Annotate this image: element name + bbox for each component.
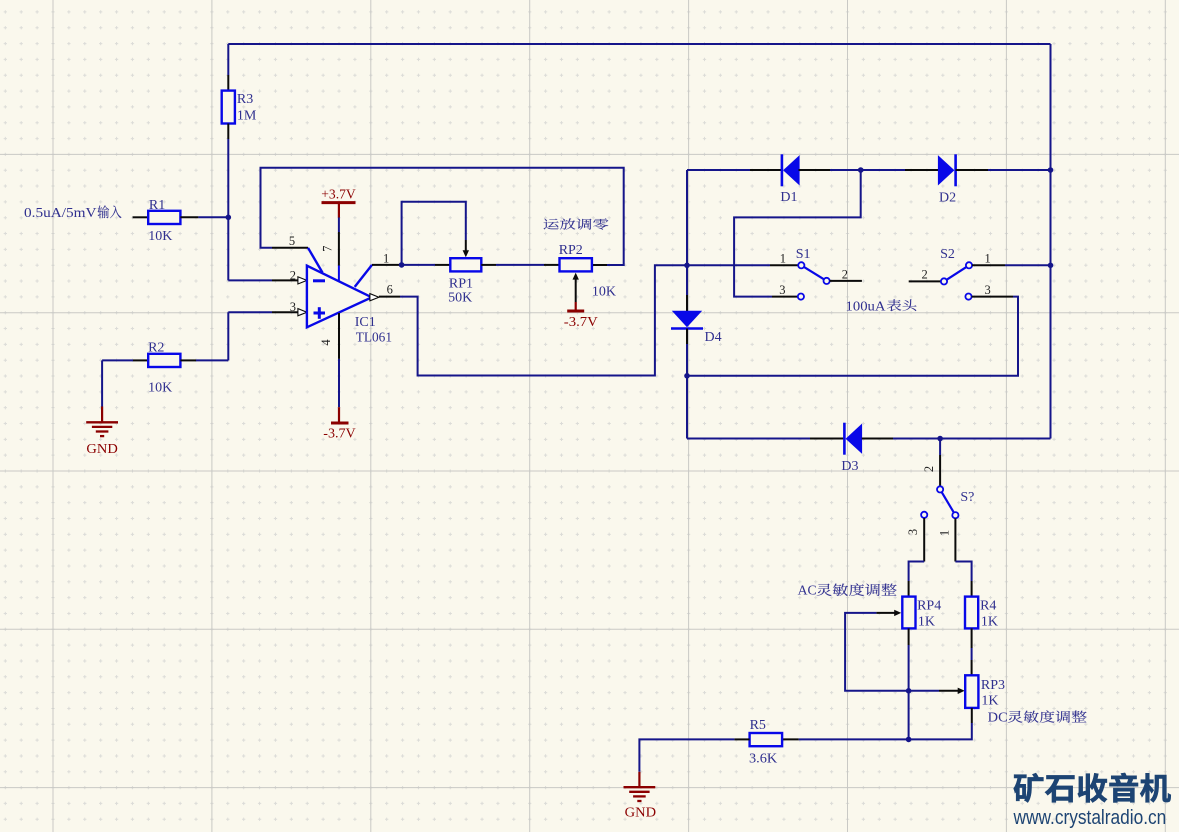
svg-text:R5: R5 <box>750 718 766 733</box>
junction: S2 pin3 rail / D4 bus <box>684 373 690 379</box>
svg-text:www.crystalradio.cn: www.crystalradio.cn <box>1013 807 1167 829</box>
wire: D4 bus vertical <box>686 170 688 295</box>
svg-text:2: 2 <box>921 267 927 281</box>
wire: R3 bottom to inverting-input node <box>227 124 229 140</box>
svg-text:1: 1 <box>780 252 786 266</box>
junction: R1 / R3 node <box>226 215 232 221</box>
switch S1 pin 1 contact <box>798 262 804 268</box>
RP2 wiper arrow from -3.7V <box>575 278 577 302</box>
svg-text:4: 4 <box>319 339 333 346</box>
wire: R1 to node <box>180 216 198 218</box>
op-amp IC1 TL061 triangle <box>307 266 372 328</box>
power ground GND (bottom) <box>638 772 640 787</box>
switch S1 pin 3 contact <box>798 294 804 300</box>
svg-text:D1: D1 <box>780 190 797 205</box>
wire: S? pin 3 down to RP4 <box>923 518 925 562</box>
svg-text:10K: 10K <box>148 229 172 244</box>
resistor R3 <box>222 91 235 124</box>
potentiometer RP1 <box>450 258 481 271</box>
svg-text:S?: S? <box>960 490 974 505</box>
switch S? pin 1 contact <box>952 512 958 518</box>
wire: S2 pin 2 stub (to meter) <box>909 280 941 282</box>
wire: R2 right to op-amp pin 3 <box>180 359 196 361</box>
svg-text:DC: DC <box>988 709 1008 724</box>
svg-text:2: 2 <box>290 268 296 282</box>
svg-text:RP2: RP2 <box>559 243 583 258</box>
switch S2 lever <box>944 265 969 281</box>
wire: RP1 to RP2 <box>481 264 496 266</box>
svg-text:S1: S1 <box>796 247 811 262</box>
svg-text:D2: D2 <box>939 191 956 206</box>
svg-text:S2: S2 <box>940 247 955 262</box>
svg-text:R1: R1 <box>149 198 165 213</box>
wire: S1 pin 2 stub (to meter) <box>830 280 862 282</box>
wire: D4 cathode down to D3 row <box>686 329 688 345</box>
junction: D2 / right bus <box>1048 167 1054 173</box>
RP3 wiper arrow <box>958 688 965 694</box>
potentiometer RP3 <box>965 675 978 708</box>
svg-text:1K: 1K <box>981 693 998 708</box>
svg-text:GND: GND <box>86 442 117 457</box>
wire: S2 pin 3 down to D4/D3 node rail <box>972 296 1013 298</box>
svg-text:3.6K: 3.6K <box>749 752 777 767</box>
svg-text:R2: R2 <box>148 340 164 355</box>
junction: D4 bus / S1 pin1 rail <box>684 263 690 269</box>
potentiometer RP2 <box>560 258 592 271</box>
svg-text:7: 7 <box>321 246 335 252</box>
wire: R5 left to GND corner <box>734 738 749 740</box>
wire: RP4 wiper to RP3 wiper <box>876 612 895 614</box>
wire: D2 to right bus <box>956 169 988 171</box>
potentiometer RP4 <box>902 597 915 629</box>
pin 7 power lead <box>338 218 340 233</box>
svg-text:TL061: TL061 <box>356 331 392 346</box>
svg-text:1K: 1K <box>918 614 935 629</box>
svg-text:2: 2 <box>842 267 848 281</box>
svg-text:R3: R3 <box>237 92 253 107</box>
wire: S2 pin 1 to right bus <box>972 264 1005 266</box>
wire: pin 5 stub and zero-adjust loop left leg <box>272 247 308 249</box>
pin 3 input arrow <box>298 309 307 316</box>
resistor R5 <box>750 733 783 746</box>
wire: RP1 wiper loop <box>402 202 466 265</box>
svg-text:R4: R4 <box>980 598 996 613</box>
resistor R4 <box>965 597 978 629</box>
svg-text:0.5uA/5mV: 0.5uA/5mV <box>24 205 97 220</box>
svg-text:1M: 1M <box>237 108 257 123</box>
wire: feedback top rail from R3 top to right bus <box>228 43 1050 45</box>
svg-text:50K: 50K <box>448 290 472 305</box>
svg-text:-3.7V: -3.7V <box>564 315 598 330</box>
switch S2 pin 3 contact <box>965 294 971 300</box>
wire: D1 to D2 <box>799 169 831 171</box>
label zero-adjust 运放调零 <box>544 219 559 230</box>
wire: input node to op-amp pin 2 <box>228 279 272 281</box>
svg-text:D4: D4 <box>705 330 722 345</box>
svg-text:5: 5 <box>289 234 295 248</box>
junction: pin1 / RP1 wiper loop <box>399 262 405 268</box>
pin 6 output arrow <box>370 294 379 301</box>
op-amp minus sign <box>313 279 325 282</box>
junction: D1-D2 midpoint tap <box>858 167 864 173</box>
wire: S? pin 2 lead <box>939 439 941 456</box>
switch S? pin 3 contact <box>921 512 927 518</box>
resistor R1 <box>148 211 180 224</box>
svg-text:1: 1 <box>985 252 991 266</box>
svg-text:+3.7V: +3.7V <box>321 187 356 202</box>
svg-text:1: 1 <box>383 252 389 266</box>
diode D1 <box>781 154 784 186</box>
watermark logo 矿石收音机 <box>1014 773 1044 802</box>
wire: R4 to RP3 <box>971 628 973 648</box>
svg-text:D3: D3 <box>841 459 858 474</box>
power -3.7V (op-amp) <box>338 407 340 421</box>
wire: R3 top stub <box>227 44 229 75</box>
wire: S? pin 1 down to R4 <box>954 518 956 561</box>
resistor R2 <box>148 354 180 367</box>
wire: right bus vertical <box>1050 44 1052 439</box>
junction: D3 row / S? pin 2 <box>937 436 943 442</box>
switch S? lever <box>940 489 955 515</box>
wire: RP3 bottom to bottom rail <box>971 708 973 723</box>
switch S1 pin 2 contact <box>824 278 830 284</box>
svg-text:IC1: IC1 <box>355 315 376 330</box>
wire: GND drop (left) <box>101 360 103 406</box>
RP4 wiper arrow <box>894 610 901 616</box>
pin 2 input arrow <box>298 277 307 284</box>
svg-text:3: 3 <box>779 283 785 297</box>
junction: S2 pin1 / right bus <box>1048 263 1054 269</box>
wire: output pin 6 to S1 pin 1 rail <box>379 296 400 298</box>
diode D2 <box>954 154 957 186</box>
svg-text:1K: 1K <box>981 614 998 629</box>
svg-text:3: 3 <box>906 529 920 535</box>
junction: RP4 bottom / wiper link <box>906 688 912 694</box>
op-amp pin 5 diagonal lead <box>308 248 323 273</box>
wire: input stub <box>133 216 149 218</box>
switch S1 lever <box>801 265 826 281</box>
wire: D3 row <box>687 438 810 440</box>
svg-text:RP3: RP3 <box>981 678 1005 693</box>
wire: pin 1 to RP1 <box>372 264 402 266</box>
svg-text:10K: 10K <box>592 285 616 300</box>
svg-text:3: 3 <box>290 300 296 314</box>
svg-text:2: 2 <box>922 466 936 472</box>
power ground GND (left) <box>101 407 103 423</box>
diode D3 <box>843 423 846 455</box>
power +3.7V <box>338 204 340 218</box>
wire: R2 left to GND corner <box>102 359 133 361</box>
wire: RP4 bottom to bottom rail <box>908 628 910 645</box>
svg-text:GND: GND <box>625 805 656 820</box>
svg-text:3: 3 <box>985 283 991 297</box>
svg-text:RP1: RP1 <box>449 276 473 291</box>
diode D4 <box>671 327 703 330</box>
svg-text:RP4: RP4 <box>917 598 941 613</box>
wire: midpoint tap down to S1 pin 3 <box>734 170 861 297</box>
svg-text:6: 6 <box>387 282 393 296</box>
svg-text:10K: 10K <box>148 381 172 396</box>
switch S2 pin 2 contact <box>941 278 947 284</box>
wire: D1-D2 row left leg from D4 bus <box>687 169 750 171</box>
svg-text:-3.7V: -3.7V <box>323 426 356 441</box>
junction: RP4 leg / bottom rail <box>906 737 912 743</box>
op-amp plus sign <box>314 312 326 315</box>
svg-text:1: 1 <box>937 530 951 536</box>
power -3.7V (RP2) <box>575 302 577 310</box>
switch S2 pin 1 contact <box>966 262 972 268</box>
switch S? pin 2 contact <box>937 486 943 492</box>
pin 4 power lead <box>338 313 340 359</box>
svg-text:AC: AC <box>798 582 817 597</box>
op-amp pin 1 diagonal lead <box>355 265 372 287</box>
svg-text:100uA: 100uA <box>846 298 886 313</box>
RP1 wiper arrow <box>463 250 469 257</box>
